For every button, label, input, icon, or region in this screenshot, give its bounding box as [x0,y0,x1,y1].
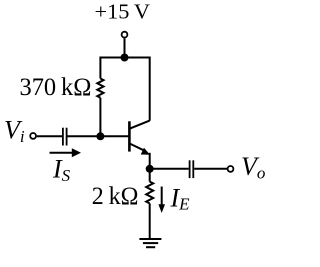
wire: capacitor C1 to base node [68,135,101,137]
arrow IE [158,187,165,214]
label +15 V [95,0,151,24]
label Vi [4,116,25,147]
svg-text:IE: IE [170,184,191,214]
wire: emitter node to capacitor C2 [150,168,189,170]
svg-text:Vi: Vi [4,116,25,147]
wire: base node to transistor base [100,135,128,137]
wire: input terminal to capacitor C1 [37,135,62,137]
wire: resistor R2 to ground [149,203,151,239]
svg-text:+15 V: +15 V [95,0,151,24]
wire: emitter node to resistor R2 [149,169,151,182]
label 2 kOhm [92,183,139,210]
capacitor C1 [63,128,67,146]
svg-text:370 kΩ: 370 kΩ [20,74,92,101]
svg-text:Vo: Vo [241,152,265,183]
node: base [96,132,104,140]
arrow IS [50,148,82,157]
svg-text:IS: IS [52,154,71,185]
wire: top rail [100,58,149,121]
wire: capacitor C2 to output terminal [194,168,227,170]
supply terminal [122,32,128,38]
node: emitter [146,165,154,173]
label Vo [241,152,265,183]
wire: supply stem [124,38,126,58]
ground [139,239,161,247]
label IE [170,184,191,214]
output terminal [228,166,234,172]
transistor Q1 emitter arrowhead [141,148,150,155]
input terminal [30,133,36,139]
svg-text:2 kΩ: 2 kΩ [92,183,139,210]
label 370 kOhm [20,74,92,101]
transistor Q1 emitter lead [130,144,145,151]
resistor R1 370k [97,79,103,98]
wire: emitter to emitter node [149,153,151,169]
transistor Q1 collector lead [130,121,150,129]
resistor R2 2k [146,182,153,204]
capacitor C2 [190,160,194,178]
label IS [52,154,71,185]
wire: resistor R1 to base node [99,98,101,137]
node: rail junction [121,54,129,62]
transistor Q1 base bar [128,121,131,151]
